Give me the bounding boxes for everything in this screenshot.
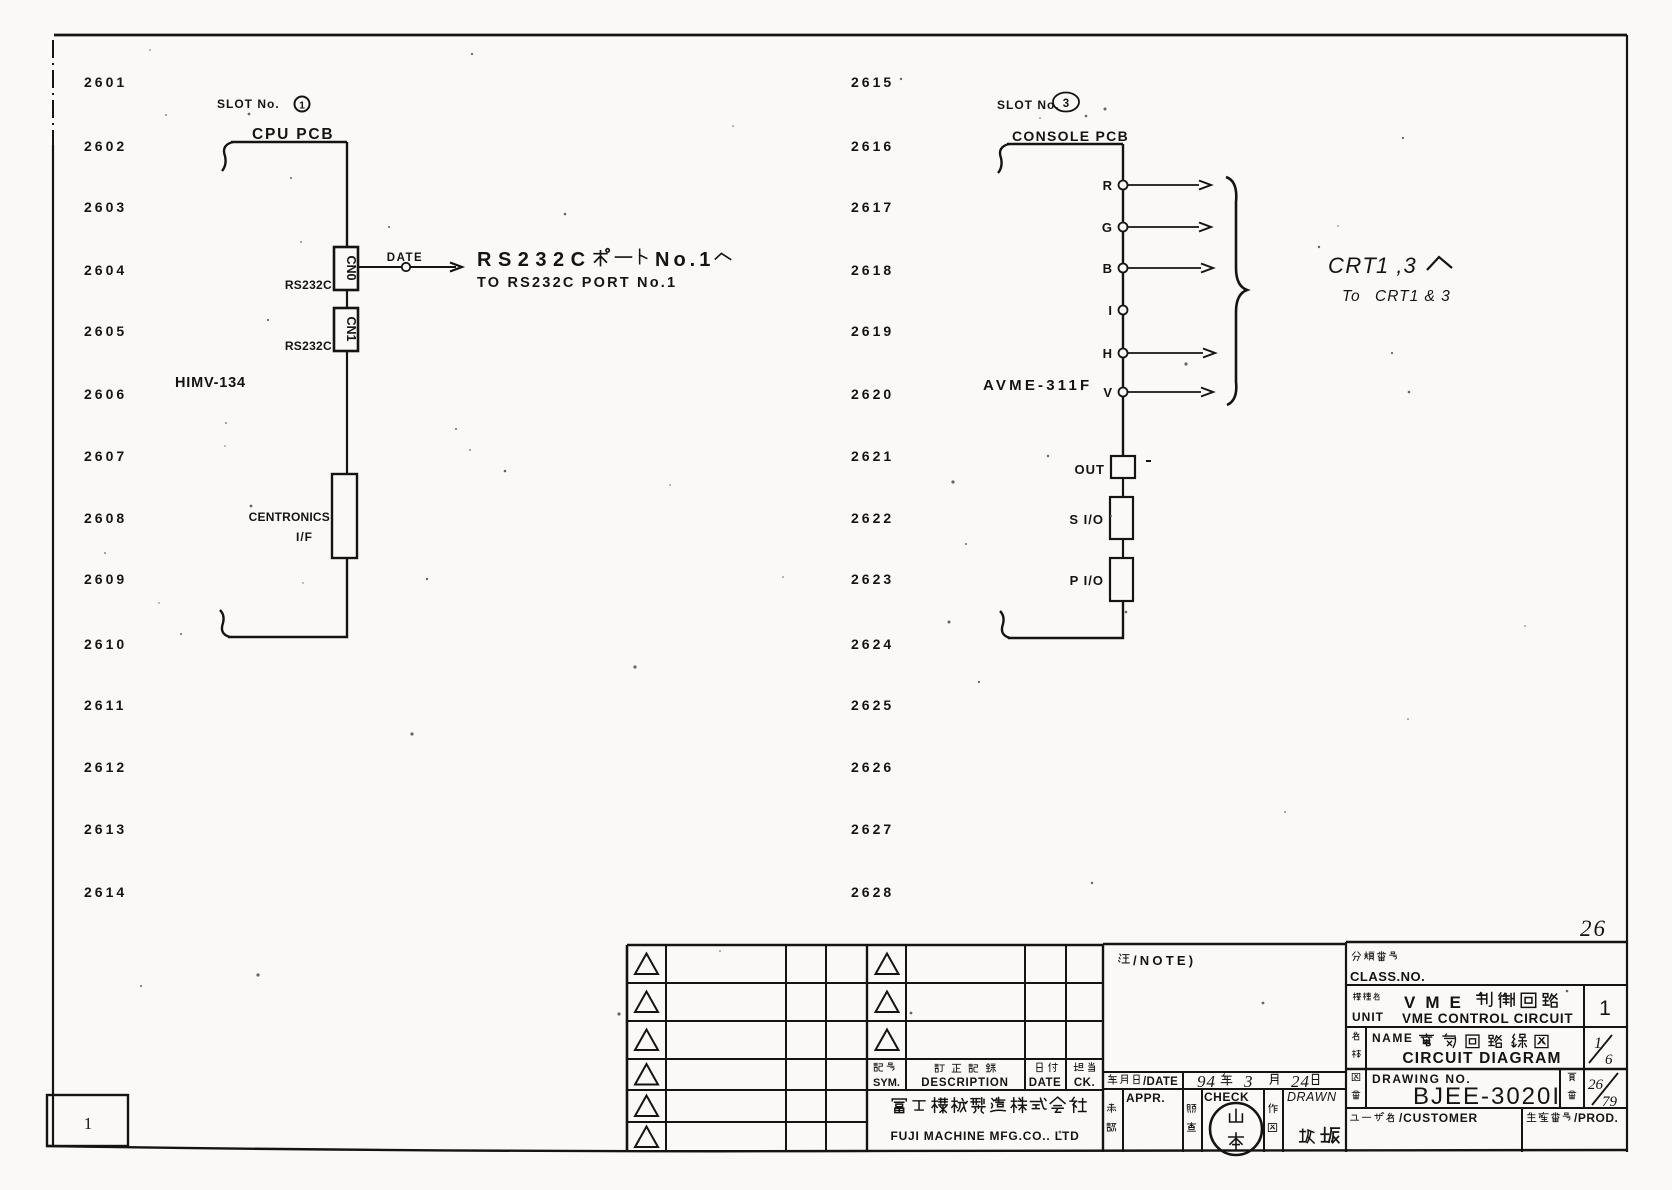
class no labels — [1350, 952, 1425, 984]
note label — [1119, 953, 1197, 968]
P I/O label — [1070, 573, 1104, 588]
svg-text:SLOT No.: SLOT No. — [997, 98, 1060, 112]
node label 2626 — [851, 759, 894, 775]
svg-text:2615: 2615 — [851, 74, 894, 90]
node label 2619 — [851, 323, 894, 339]
CHECK label — [1204, 1090, 1249, 1104]
handwritten page number 26 — [1580, 916, 1607, 941]
pin V — [1103, 385, 1213, 400]
connector CN0 — [334, 247, 358, 290]
svg-text:2605: 2605 — [84, 323, 127, 339]
connector S I/O — [1110, 497, 1133, 539]
prod row label — [1527, 1111, 1618, 1125]
CPU PCB board bracket wire — [222, 142, 347, 171]
date row label — [1108, 1072, 1183, 1089]
board name HIMV-134 — [175, 375, 246, 391]
wire S I/O to P I/O — [1122, 539, 1124, 558]
svg-text:2623: 2623 — [851, 571, 894, 587]
APPR. label — [1126, 1091, 1165, 1105]
svg-text:CONSOLE PCB: CONSOLE PCB — [1012, 128, 1129, 144]
svg-text:BJEE-3020I: BJEE-3020I — [1413, 1083, 1561, 1110]
svg-text:I: I — [1108, 303, 1112, 318]
date value 94 3 24 (handwritten) — [1197, 1072, 1319, 1091]
svg-text:No.1: No.1 — [655, 249, 714, 271]
svg-text:VME CONTROL CIRCUIT: VME CONTROL CIRCUIT — [1402, 1011, 1573, 1026]
svg-text:2622: 2622 — [851, 510, 894, 526]
svg-text:2601: 2601 — [84, 74, 127, 90]
node label 2605 — [84, 323, 127, 339]
header CK — [1074, 1063, 1095, 1089]
svg-text:DRAWN: DRAWN — [1287, 1090, 1337, 1104]
svg-text:DATE: DATE — [387, 252, 423, 264]
checker column label — [1187, 1105, 1195, 1132]
svg-text:2621: 2621 — [851, 448, 894, 464]
svg-text:/CUSTOMER: /CUSTOMER — [1399, 1111, 1478, 1125]
pin G — [1102, 220, 1211, 235]
node label 2602 — [84, 138, 127, 154]
svg-text:UNIT: UNIT — [1352, 1010, 1384, 1024]
note CRT 1,3 (handwritten) — [1328, 253, 1452, 278]
svg-text:P I/O: P I/O — [1070, 573, 1104, 588]
wire CONSOLE vertical bus — [1122, 144, 1124, 457]
node label 2617 — [851, 199, 894, 215]
node label 2628 — [851, 884, 894, 900]
node label 2618 — [851, 262, 894, 278]
svg-text:2607: 2607 — [84, 448, 127, 464]
drawing number BJEE-30201 (handwritten) — [1413, 1083, 1561, 1110]
svg-text:CHECK: CHECK — [1204, 1090, 1249, 1104]
svg-text:OUT: OUT — [1075, 462, 1105, 477]
svg-text:2613: 2613 — [84, 821, 127, 837]
svg-text:1: 1 — [1599, 997, 1611, 1020]
unit name VME control circuit — [1402, 993, 1573, 1026]
note box — [1103, 942, 1346, 1152]
DRAWN label — [1287, 1090, 1337, 1104]
svg-text:CIRCUIT DIAGRAM: CIRCUIT DIAGRAM — [1402, 1050, 1561, 1067]
company name Fuji Machine Mfg — [890, 1097, 1086, 1143]
wire OUT to S I/O — [1122, 478, 1124, 497]
svg-text:1: 1 — [84, 1114, 93, 1133]
svg-text:CPU PCB: CPU PCB — [252, 126, 334, 143]
sheet number box — [47, 1095, 128, 1146]
unit row labels — [1352, 993, 1384, 1024]
wire CN0 to CN1 — [346, 290, 348, 308]
svg-text:2620: 2620 — [851, 386, 894, 402]
svg-text:2625: 2625 — [851, 697, 894, 713]
svg-text:SYM.: SYM. — [873, 1077, 900, 1089]
node label 2627 — [851, 821, 894, 837]
connector CENTRONICS I/F — [332, 474, 357, 558]
revision triangles second column — [876, 954, 899, 1051]
sheet 1/6 (handwritten) — [1589, 1035, 1613, 1068]
page 26/79 (handwritten) — [1588, 1073, 1618, 1110]
svg-text:2611: 2611 — [84, 697, 126, 713]
revision triangles left column — [635, 954, 658, 1148]
pin I — [1108, 303, 1127, 318]
CPU PCB bottom bracket hook — [220, 610, 230, 637]
svg-text:FUJI MACHINE MFG.CO.. LTD: FUJI MACHINE MFG.CO.. LTD — [890, 1129, 1079, 1143]
drawing no row labels — [1352, 1072, 1471, 1099]
CONSOLE PCB title — [1012, 128, 1129, 144]
approver column label — [1107, 1104, 1116, 1131]
node label 2622 — [851, 510, 894, 526]
svg-text:B: B — [1103, 261, 1112, 276]
node label 2601 — [84, 74, 127, 90]
svg-text:/NOTE): /NOTE) — [1133, 953, 1196, 968]
svg-text:RS232C: RS232C — [285, 278, 332, 292]
note TO CRT1&3 (handwritten) — [1342, 288, 1451, 305]
svg-text:HIMV-134: HIMV-134 — [175, 375, 246, 391]
slot number 3 label — [997, 93, 1079, 113]
svg-text:TO RS232C PORT No.1: TO RS232C PORT No.1 — [477, 275, 677, 291]
svg-text:1 ,3: 1 ,3 — [1376, 253, 1417, 278]
S I/O label — [1069, 512, 1104, 527]
svg-text:3: 3 — [1063, 98, 1069, 110]
connector P I/O — [1110, 558, 1133, 601]
DATE label — [387, 252, 423, 264]
svg-text:CN1: CN1 — [344, 316, 358, 341]
svg-text:2602: 2602 — [84, 138, 127, 154]
revision table grid — [627, 945, 1103, 1152]
node label 2616 — [851, 138, 894, 154]
page column label — [1568, 1073, 1576, 1099]
node label 2607 — [84, 448, 127, 464]
header SYM — [873, 1063, 900, 1089]
customer row label — [1351, 1111, 1478, 1125]
signature row grid — [1123, 1089, 1283, 1152]
drawing name circuit diagram — [1402, 1034, 1561, 1067]
node label 2604 — [84, 262, 127, 278]
svg-text:2618: 2618 — [851, 262, 894, 278]
svg-text:H: H — [1103, 346, 1112, 361]
note TO RS232C PORT No.1 — [477, 275, 677, 291]
hanko stamp Yamamoto — [1210, 1103, 1262, 1155]
svg-text:2603: 2603 — [84, 199, 127, 215]
CENTRONICS label — [249, 510, 330, 544]
svg-text:CN0: CN0 — [344, 255, 358, 280]
unit qty 1 — [1599, 997, 1611, 1020]
pin B — [1103, 261, 1213, 276]
svg-text:NAME: NAME — [1372, 1031, 1413, 1045]
drafter column label — [1268, 1104, 1277, 1132]
svg-text:I/F: I/F — [296, 530, 313, 544]
node label 2612 — [84, 759, 127, 775]
svg-text:S I/O: S I/O — [1069, 512, 1104, 527]
slot number 1 label — [217, 97, 310, 112]
svg-text:3: 3 — [1243, 1072, 1253, 1091]
svg-text:RS232C: RS232C — [477, 249, 592, 271]
node label 2625 — [851, 697, 894, 713]
node label 2623 — [851, 571, 894, 587]
header DESCRIPTION — [921, 1064, 1008, 1089]
svg-text:2612: 2612 — [84, 759, 127, 775]
header DATE — [1029, 1063, 1061, 1089]
svg-text:CLASS.NO.: CLASS.NO. — [1350, 969, 1425, 984]
svg-text:RS232C: RS232C — [285, 339, 332, 353]
stray mark — [1146, 460, 1151, 462]
svg-text:26: 26 — [1580, 916, 1607, 941]
svg-text:2614: 2614 — [84, 884, 127, 900]
OUT label — [1075, 462, 1105, 477]
drawn signature (handwritten) — [1300, 1128, 1340, 1143]
connector CN1 — [334, 308, 358, 351]
wire P I/O to bottom — [1008, 601, 1123, 638]
board name AVME-311F — [983, 377, 1092, 394]
svg-text:CRT: CRT — [1328, 253, 1377, 278]
svg-text:2608: 2608 — [84, 510, 127, 526]
svg-text:R: R — [1103, 178, 1113, 193]
CN0 RS232C label — [285, 278, 332, 292]
RGB bundle brace — [1226, 177, 1247, 405]
svg-text:SLOT No.: SLOT No. — [217, 97, 280, 111]
svg-text:2604: 2604 — [84, 262, 127, 278]
svg-text:2609: 2609 — [84, 571, 127, 587]
svg-text:2610: 2610 — [84, 636, 127, 652]
svg-text:2617: 2617 — [851, 199, 894, 215]
node label 2608 — [84, 510, 127, 526]
node label 2615 — [851, 74, 894, 90]
svg-text:CK.: CK. — [1074, 1077, 1095, 1089]
svg-text:CRT1 & 3: CRT1 & 3 — [1375, 288, 1451, 305]
svg-text:24: 24 — [1291, 1072, 1310, 1091]
svg-text:94: 94 — [1197, 1072, 1216, 1091]
node label 2603 — [84, 199, 127, 215]
svg-text:1: 1 — [299, 100, 305, 112]
node label 2614 — [84, 884, 127, 900]
svg-text:VME: VME — [1404, 993, 1471, 1012]
svg-text:2616: 2616 — [851, 138, 894, 154]
CONSOLE PCB bottom bracket hook — [1000, 611, 1010, 638]
svg-text:2627: 2627 — [851, 821, 894, 837]
pin H — [1103, 346, 1215, 361]
svg-text:26: 26 — [1588, 1077, 1604, 1093]
name row labels — [1353, 1031, 1414, 1058]
node label 2624 — [851, 636, 894, 652]
svg-text:CENTRONICS: CENTRONICS — [249, 510, 330, 524]
svg-text:/DATE: /DATE — [1143, 1076, 1178, 1088]
svg-text:To: To — [1342, 288, 1361, 305]
svg-text:V: V — [1103, 385, 1112, 400]
wire CN1 to CENTRONICS — [346, 351, 348, 474]
svg-text:2619: 2619 — [851, 323, 894, 339]
svg-text:AVME-311F: AVME-311F — [983, 377, 1092, 394]
CN1 RS232C label — [285, 339, 332, 353]
wire CENTRONICS to bottom — [228, 558, 347, 637]
svg-text:G: G — [1102, 220, 1112, 235]
svg-text:6: 6 — [1605, 1052, 1613, 1068]
wire CPU top to CN0 — [346, 142, 348, 247]
node label 2621 — [851, 448, 894, 464]
note RS232C port no.1 (jp) — [477, 249, 731, 271]
svg-text:APPR.: APPR. — [1126, 1091, 1165, 1105]
svg-text:DESCRIPTION: DESCRIPTION — [921, 1077, 1008, 1089]
DATE signal wire with arrow — [358, 263, 462, 272]
svg-text:/PROD.: /PROD. — [1574, 1111, 1618, 1125]
node label 2620 — [851, 386, 894, 402]
CPU PCB title — [252, 126, 334, 143]
node label 2613 — [84, 821, 127, 837]
svg-text:DATE: DATE — [1029, 1077, 1061, 1089]
connector OUT — [1111, 456, 1135, 478]
node label 2610 — [84, 636, 127, 652]
svg-text:2606: 2606 — [84, 386, 127, 402]
CONSOLE PCB board bracket wire — [998, 144, 1123, 173]
node label 2606 — [84, 386, 127, 402]
pin R — [1103, 178, 1211, 193]
node label 2609 — [84, 571, 127, 587]
svg-text:2626: 2626 — [851, 759, 894, 775]
svg-text:2628: 2628 — [851, 884, 894, 900]
svg-text:2624: 2624 — [851, 636, 894, 652]
info block grid — [1346, 942, 1627, 1152]
node label 2611 — [84, 697, 126, 713]
svg-text:79: 79 — [1602, 1094, 1618, 1110]
